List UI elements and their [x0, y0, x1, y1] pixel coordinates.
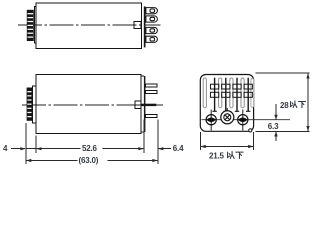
keyway box view2: [135, 101, 141, 108]
corner pip: [249, 129, 252, 132]
svg-text:21.5: 21.5: [209, 152, 225, 161]
cap shoulder view1: [34, 7, 36, 44]
knurled grip ribs view2: [27, 88, 33, 121]
28: [256, 72, 310, 74]
relay body view2: [36, 75, 141, 134]
svg-text:52.6: 52.6: [82, 144, 98, 153]
6.4 dim: [159, 148, 171, 150]
svg-text:28: 28: [280, 101, 289, 110]
flange step top view2: [141, 75, 144, 77]
52.6 dim: [36, 148, 144, 150]
svg-text:(63.0): (63.0): [79, 156, 99, 165]
mounting flange view2: [144, 76, 146, 132]
21.5: [199, 132, 201, 150]
keyway box view1: [134, 22, 141, 29]
dimension annotations for side view: [3, 120, 184, 166]
centerline view1: [18, 24, 161, 26]
centerline view2: [22, 104, 163, 106]
relay body view1: [36, 3, 141, 49]
terminal blades with cross sections: [210, 78, 252, 112]
pins view2: [141, 84, 157, 118]
svg-text:6.3: 6.3: [268, 122, 279, 131]
view 2: relay side view: [22, 75, 163, 134]
cap shoulder view2: [32, 86, 36, 123]
view 3: relay bottom view: [200, 75, 290, 132]
knurled grip ribs view1: [27, 10, 34, 41]
6.3: [275, 104, 277, 120]
view 1: relay top view (side profile): [18, 3, 161, 49]
svg-text:6.4: 6.4: [173, 144, 184, 153]
flange step bottom view2: [141, 131, 144, 133]
center post and terminal holes: [202, 108, 291, 131]
dimension annotations for bottom view: [200, 73, 309, 161]
mounting flange view1: [144, 6, 146, 47]
octal pins view1: [146, 8, 158, 43]
terminal slots: [203, 78, 254, 108]
(63.0) dim: [26, 160, 158, 162]
